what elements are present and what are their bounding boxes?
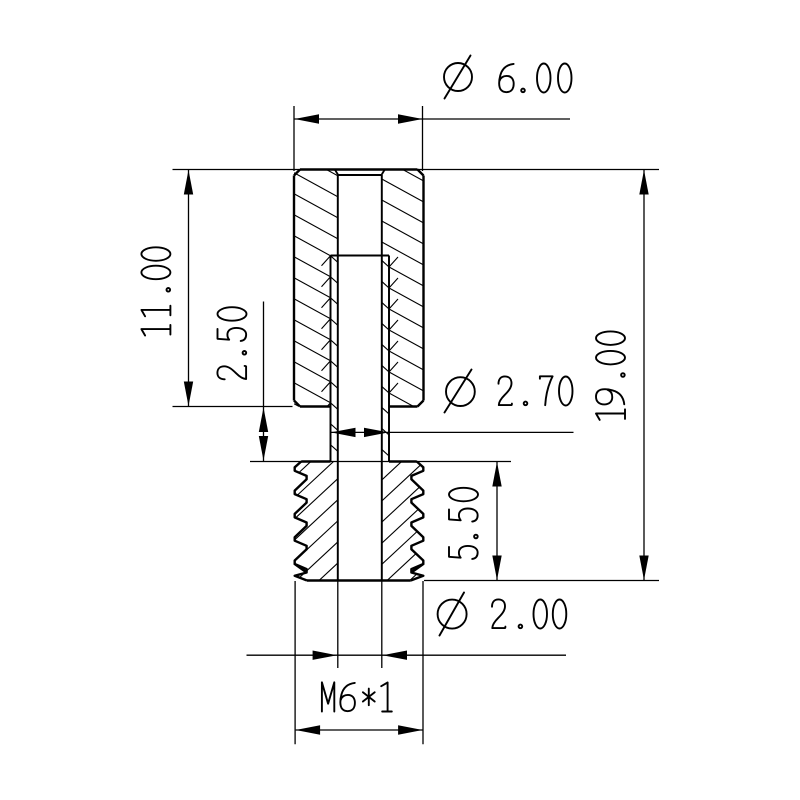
dimension: diameter 2.70 (neck) (331, 370, 574, 438)
dimension: diameter 6.00 (top) (294, 56, 572, 172)
hatch: upper cylinder left wall (294, 110, 338, 449)
dimension: 19.00 (right, overall length) (424, 170, 659, 581)
part: bore entrance chamfer (335, 170, 385, 176)
part: threaded section M6 outline (295, 462, 424, 581)
hatch: liner tube left wall strip (331, 256, 338, 473)
hatch: upper cylinder right wall (382, 116, 424, 454)
dimension: thread callout M6*1 (295, 581, 423, 744)
part: filament bore walls (D2.00) (338, 175, 382, 581)
dimension: 11.00 (left, cylinder length) (141, 170, 292, 407)
hatch: threaded section left (295, 394, 338, 645)
extension line: top face level (11.00 / 19.00) (173, 169, 660, 171)
dimension: 5.50 (thread length) (449, 462, 502, 581)
part: upper cylinder body outline (D6.00 x 11.00) (294, 170, 424, 407)
dimension: diameter 2.00 (bore) (247, 581, 567, 668)
extension line: thread top level (2.50 / 5.50) (250, 461, 511, 463)
hatch: threaded section right (382, 399, 424, 649)
part: liner tube (D2.70 counterbore) outline (331, 256, 390, 462)
dimension: 2.50 (left, neck height) (217, 302, 268, 462)
hatch: liner tube right wall strip (382, 239, 389, 455)
